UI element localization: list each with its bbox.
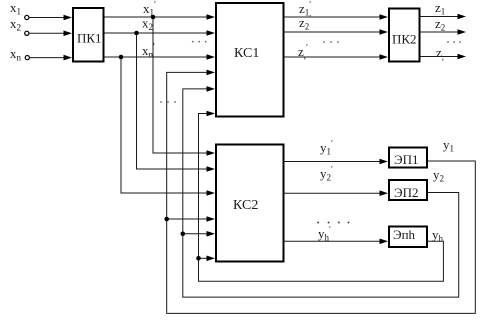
svg-text:КС1: КС1 <box>234 46 259 61</box>
svg-text:Эпh: Эпh <box>393 227 416 242</box>
svg-text:ЭП2: ЭП2 <box>394 185 418 200</box>
svg-text:ПК1: ПК1 <box>77 31 102 46</box>
svg-text:КС2: КС2 <box>233 198 258 213</box>
svg-text:ЭП1: ЭП1 <box>394 152 418 167</box>
svg-text:ПК2: ПК2 <box>392 32 417 47</box>
